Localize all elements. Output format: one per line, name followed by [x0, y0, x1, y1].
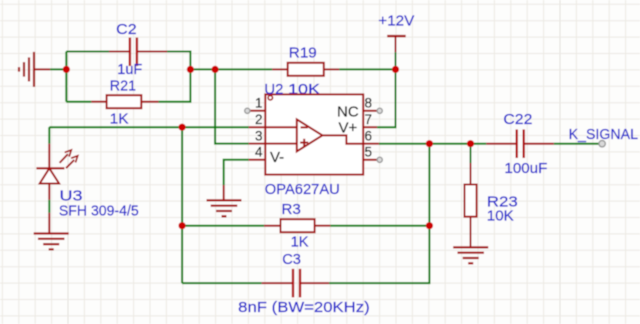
svg-text:1K: 1K: [110, 111, 129, 128]
capacitor C2 plates: [129, 38, 131, 67]
resistor R19 body: [288, 63, 324, 76]
wire photodiode top: [48, 127, 50, 144]
svg-text:R3: R3: [281, 201, 301, 218]
photodiode U3 anode lead: [48, 184, 50, 200]
pin 7 stub: [363, 126, 377, 128]
supply +12V: [387, 35, 406, 37]
junction top left loop: [187, 66, 194, 73]
wire C3 left: [182, 282, 262, 284]
svg-text:2: 2: [255, 112, 263, 127]
junction node A: [63, 66, 70, 73]
wire C22 right to K_SIGNAL: [554, 143, 599, 145]
wire loop left vertical: [65, 52, 67, 102]
wire output net: [379, 143, 486, 145]
wire C2 left: [66, 51, 109, 53]
svg-text:8: 8: [365, 96, 373, 111]
ground GND4 below R23: [470, 217, 472, 248]
photodiode U3 triangle: [40, 168, 59, 183]
svg-text:NC: NC: [337, 103, 359, 120]
capacitor C22 leads: [486, 143, 516, 145]
pin 2 stub: [249, 126, 297, 128]
op-amp triangle: [297, 119, 323, 151]
svg-text:+12V: +12V: [378, 12, 414, 29]
op-amp U2 pin1 marker: [268, 96, 272, 100]
wire top net segment 1: [190, 68, 215, 70]
svg-text:1uF: 1uF: [117, 61, 142, 78]
wire mid vertical x181: [181, 127, 183, 283]
ground GND3 below U3: [48, 213, 50, 234]
capacitor C22 plates: [516, 129, 518, 158]
resistor R3 body: [281, 219, 315, 232]
pin 5 stub: [363, 159, 377, 161]
op-amp output jog: [322, 135, 363, 143]
wire R19 right to +12V node: [339, 68, 395, 70]
svg-text:100uF: 100uF: [504, 160, 547, 177]
svg-text:1: 1: [255, 96, 263, 111]
photodiode U3 cathode bar: [36, 167, 64, 169]
capacitor C2 leads: [109, 51, 130, 53]
svg-text:8nF (BW=20KHz): 8nF (BW=20KHz): [238, 299, 370, 316]
resistor R23 body: [465, 185, 477, 217]
wire +12V node down to pin7: [377, 69, 395, 127]
wire R21 left: [66, 101, 91, 103]
wire gnd to node A: [50, 68, 66, 70]
svg-text:OPA627AU: OPA627AU: [265, 181, 340, 198]
wire +12V stem lower: [395, 52, 397, 69]
svg-text:V+: V+: [339, 120, 358, 137]
pin 3 stub: [249, 143, 297, 145]
junction +12V node: [392, 66, 399, 73]
pin 6 stub: [363, 143, 379, 145]
svg-text:R21: R21: [110, 77, 136, 94]
resistor R21 leads: [91, 101, 106, 103]
junction output x430: [426, 140, 433, 147]
junction input net: [179, 124, 186, 131]
svg-text:R19: R19: [289, 45, 317, 62]
wire output down x430: [428, 144, 430, 226]
wire pin4 to gnd corner: [224, 160, 249, 185]
capacitor C3 leads: [262, 282, 293, 284]
wire diode to gnd segment: [48, 200, 50, 213]
wire input net y127: [49, 126, 248, 128]
photodiode U3 cathode lead: [48, 144, 50, 169]
wire C2 right to corner: [167, 52, 190, 70]
junction R3 right node: [426, 222, 433, 229]
photodiode U3 arrow 1: [60, 154, 68, 163]
resistor R3 leads: [264, 225, 280, 227]
svg-text:3: 3: [255, 128, 263, 143]
svg-text:C2: C2: [116, 21, 137, 38]
junction output x470: [467, 140, 474, 147]
pin 1 stub: [249, 110, 266, 112]
ground GND1 left: [33, 52, 35, 87]
svg-text:V-: V-: [270, 149, 284, 166]
op-amp U2 body: [265, 94, 363, 174]
wire C3 right to corner: [329, 226, 429, 283]
wire R3 right: [330, 225, 429, 227]
svg-text:4: 4: [255, 145, 263, 160]
svg-text:U2: U2: [264, 81, 283, 98]
svg-text:5: 5: [365, 145, 373, 160]
capacitor C3 plates: [292, 269, 294, 298]
net end marker K_SIGNAL: [599, 141, 605, 147]
svg-text:C22: C22: [503, 111, 532, 128]
wire top net segment 2: [215, 68, 272, 70]
wire R21 right to corner: [159, 69, 191, 101]
resistor R19 leads: [272, 68, 288, 70]
svg-text:10K: 10K: [487, 207, 514, 224]
svg-text:C3: C3: [282, 251, 301, 268]
resistor R21 body: [107, 95, 142, 108]
photodiode U3 arrow 2: [66, 160, 74, 168]
junction top mid: [212, 66, 219, 73]
ground GND2 below op-amp V-: [223, 185, 225, 200]
svg-text:K_SIGNAL: K_SIGNAL: [569, 126, 638, 143]
wire R3 left: [182, 225, 264, 227]
pin 8 stub: [363, 110, 377, 112]
pin 4 stub: [249, 159, 266, 161]
resistor R23 leads: [470, 163, 472, 185]
svg-text:1K: 1K: [291, 233, 309, 250]
op-amp plus input mark: [300, 142, 308, 144]
wire node B down to pin3: [215, 69, 249, 143]
svg-text:SFH 309-4/5: SFH 309-4/5: [59, 202, 139, 219]
wire R23 top: [470, 144, 472, 163]
svg-text:7: 7: [365, 112, 373, 127]
op-amp minus input mark: [301, 126, 308, 128]
svg-text:6: 6: [365, 128, 373, 143]
junction R3 left node: [179, 222, 186, 229]
